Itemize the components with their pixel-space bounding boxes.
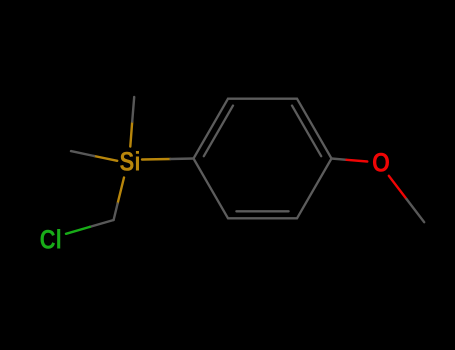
bond ring C4 to O (red half) bbox=[347, 160, 368, 162]
bond O to methyl CH3 (red half) bbox=[389, 176, 407, 199]
bond ring C4 to O (gray half) bbox=[332, 159, 347, 160]
bond Si to left methyl (olive half) bbox=[94, 156, 117, 161]
wire ring edge TR-R bbox=[297, 99, 332, 159]
double bond inner line L-TL bbox=[204, 106, 233, 157]
bond CH2 to Cl (gray half) bbox=[90, 220, 114, 227]
bond Si to upper methyl (olive half) bbox=[130, 122, 132, 147]
wire ring edge L-TL bbox=[194, 99, 229, 159]
bond Si to ring C1 (gray half) bbox=[171, 157, 194, 160]
bond Si to ring C1 (olive half) bbox=[142, 158, 171, 161]
wire ring edge BR-BL bbox=[228, 217, 297, 219]
svg-text:Cl: Cl bbox=[40, 225, 62, 255]
bond Si to left methyl (gray half) bbox=[71, 151, 94, 156]
svg-text:Si: Si bbox=[120, 147, 141, 177]
wire ring edge TL-TR bbox=[228, 98, 297, 100]
wire ring edge R-BR bbox=[297, 159, 332, 219]
bond Si to CH2 (gray half) bbox=[114, 204, 118, 221]
double bond inner line BR-BL bbox=[236, 210, 288, 212]
bond O to methyl CH3 (gray half) bbox=[407, 199, 425, 222]
wire ring edge BL-L bbox=[194, 159, 229, 219]
bond Si to CH2 (olive half) bbox=[118, 178, 124, 204]
svg-text:O: O bbox=[372, 147, 390, 177]
bond Si to upper methyl (gray half) bbox=[132, 97, 134, 122]
bond CH2 to Cl (green half) bbox=[66, 227, 90, 234]
double bond inner line TR-R bbox=[292, 106, 321, 157]
benzene ring C1-C6 bbox=[194, 99, 332, 219]
